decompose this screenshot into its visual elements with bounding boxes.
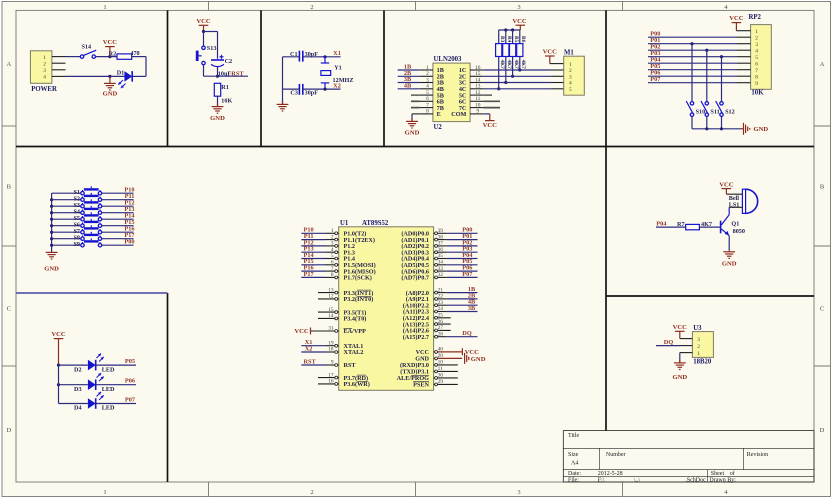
wire net X1 to U1 (301, 339, 325, 346)
svg-text:10K: 10K (221, 98, 232, 105)
svg-text:3: 3 (517, 4, 520, 11)
switch S4 (73, 206, 101, 216)
wire POWER pin4 to LED anode (66, 75, 125, 77)
svg-text:VCC: VCC (512, 18, 527, 25)
pin 31 of U1 (EA/VPP) (311, 326, 339, 333)
wire net P15 from S6 (102, 219, 135, 226)
node R3 to row junction (497, 87, 500, 90)
wire net 4B (U2 input) (398, 82, 420, 89)
svg-text:3: 3 (43, 68, 46, 74)
wire S10 to ground bus (691, 116, 693, 128)
pin 15 of U1 (P3.5) (318, 307, 339, 314)
pin 3 of U3 (VDD) (680, 338, 693, 340)
svg-text:A: A (6, 61, 11, 68)
wire net P04 to RP2 pin 6 (648, 57, 751, 64)
wire net P17 to U1 (301, 271, 325, 278)
pin 3 of U2 (420, 77, 433, 83)
wire net P16 from S7 (102, 226, 135, 233)
svg-text:VCC: VCC (543, 49, 558, 56)
svg-text:1: 1 (569, 62, 572, 68)
op-amp U2 ULN2003 body (433, 56, 470, 131)
switch S7 (73, 225, 101, 235)
svg-text:GND: GND (722, 260, 737, 267)
LED D3 (74, 373, 115, 393)
pin 36 of U1 (P0.3) (434, 247, 447, 254)
pin 1 of POWER (52, 56, 66, 58)
pin 28 of U1 (P2.7) (434, 331, 447, 338)
svg-text:U1: U1 (340, 220, 349, 227)
svg-text:8050: 8050 (733, 228, 745, 235)
wire net P07 to RP2 pin 9 (648, 76, 751, 83)
wire stub U2 pin 10 (483, 107, 500, 109)
svg-text:S12: S12 (725, 109, 735, 116)
node X2 junction (323, 88, 326, 91)
pin 29 of U1 (PSEN) stub (434, 379, 458, 386)
wire C1 left (283, 56, 300, 58)
svg-text:40: 40 (438, 347, 444, 353)
wire VCC stem to LED rows (58, 365, 60, 403)
pin top of LS1 (726, 193, 742, 195)
svg-text:Y1: Y1 (334, 65, 342, 72)
svg-text:R3: R3 (499, 36, 505, 43)
svg-text:P1.7(SCK): P1.7(SCK) (344, 275, 372, 282)
svg-text:8: 8 (331, 272, 334, 278)
wire left vertical (crystal block) (282, 57, 284, 89)
svg-text:D4: D4 (74, 405, 82, 412)
pin 16 of U2 (470, 65, 483, 71)
pin bottom of LS1 (729, 206, 742, 208)
svg-text:C3: C3 (290, 90, 298, 97)
svg-text:\..\: \..\ (634, 477, 641, 483)
svg-text:R2: R2 (109, 51, 117, 58)
wire bus to S9 (52, 244, 81, 246)
svg-text:Revision: Revision (747, 452, 768, 458)
svg-text:4: 4 (755, 48, 758, 54)
wire net P11 from S2 (102, 193, 135, 200)
svg-text:C: C (7, 306, 11, 313)
svg-text:26: 26 (438, 319, 444, 325)
svg-text:9: 9 (476, 109, 479, 115)
svg-text:VCC: VCC (294, 328, 309, 335)
pin 12 of U1 (P3.2) (318, 294, 339, 301)
wire stub U2 pin 11 (483, 100, 500, 102)
svg-text:4B: 4B (404, 82, 412, 89)
svg-text:35: 35 (438, 253, 444, 259)
svg-text:29: 29 (438, 379, 444, 385)
wire bus to S6 (52, 225, 81, 227)
svg-text:(AD7)P0.7: (AD7)P0.7 (401, 275, 429, 282)
pin 12 of U2 (470, 90, 483, 96)
pin 4 of U1 (P1.3) (326, 247, 339, 254)
svg-text:2: 2 (310, 489, 313, 496)
wire net 3B from U1 (447, 305, 478, 312)
pin 22 of U1 (P2.1) (434, 294, 447, 301)
ground (keypad block) (44, 252, 59, 272)
svg-text:P05: P05 (125, 358, 135, 365)
svg-text:2: 2 (426, 71, 429, 77)
wire net P06 from U1 (447, 265, 478, 272)
svg-text:4: 4 (426, 84, 429, 90)
wire net 2B (U2 input) (398, 70, 420, 77)
wire net RST (204, 70, 249, 77)
switch S8 (73, 232, 101, 242)
wire net P01 from U1 (447, 233, 478, 240)
capacitor C2 (211, 55, 232, 78)
svg-text:16: 16 (475, 65, 481, 71)
wire net X2 (303, 82, 341, 89)
wire C2 to RST node (217, 67, 219, 77)
pin 8 of U2 (420, 109, 433, 115)
node RST junction (216, 75, 219, 78)
svg-text:B: B (7, 184, 12, 191)
wire net P12 to U1 (301, 239, 325, 246)
wire P03 to S12 (721, 57, 723, 102)
wire net P04 from U1 (447, 252, 478, 259)
svg-text:D2: D2 (74, 366, 82, 373)
pin 26 of U1 (P2.5) stub (434, 319, 451, 326)
power port VCC (U1 pin40) (462, 348, 479, 356)
svg-text:6: 6 (331, 260, 334, 266)
svg-text:3: 3 (517, 489, 520, 496)
pin 9 of U2 (470, 109, 483, 115)
pin 30 of U1 (ALE) stub (434, 373, 458, 380)
power port VCC (RP2) (729, 15, 744, 31)
wire S13 to RST node (203, 65, 205, 76)
svg-text:22: 22 (438, 294, 444, 300)
wire net P05 from U1 (447, 258, 478, 265)
svg-text:21: 21 (438, 287, 444, 293)
node R6 to row junction (518, 68, 521, 71)
svg-text:S11: S11 (710, 109, 719, 116)
switch S6 (73, 219, 101, 229)
ground (U2 block) (405, 118, 420, 136)
wire net P04 to R7 (656, 220, 686, 227)
wire bus to S1 (52, 192, 81, 194)
wire R2 to LED cathode (132, 57, 146, 77)
wire bus to S4 (52, 212, 81, 214)
svg-text:P06: P06 (125, 378, 135, 385)
node R4 to row junction (504, 81, 507, 84)
wire net P07 from D4 (96, 396, 136, 403)
svg-text:3B: 3B (468, 305, 476, 312)
ground (reset block) (210, 104, 225, 122)
svg-text:31: 31 (328, 326, 334, 332)
svg-text:1: 1 (697, 351, 700, 357)
svg-text:C2: C2 (225, 58, 233, 65)
wire ground bus (key block) (692, 128, 741, 130)
pin 1 of U3 (GND) (680, 352, 693, 354)
pin 21 of U1 (P2.0) (434, 287, 447, 294)
svg-text:15: 15 (475, 71, 481, 77)
svg-text:LED: LED (102, 366, 115, 373)
wire net X2 to U1 (301, 345, 325, 352)
node GND junction A1 (108, 75, 111, 78)
pin 5 of U2 (420, 90, 433, 96)
pin 34 of U1 (P0.5) (434, 260, 447, 267)
wire net P13 from S4 (102, 206, 135, 213)
svg-text:R4: R4 (506, 36, 512, 43)
svg-text:2: 2 (697, 344, 700, 350)
switch S12 (716, 101, 735, 116)
wire net P02 from U1 (447, 239, 478, 246)
pin 1 of U2 (420, 65, 433, 71)
svg-text:POWER: POWER (31, 86, 57, 93)
svg-text:10K: 10K (751, 90, 764, 97)
svg-text:24: 24 (438, 306, 444, 312)
wire net P13 to U1 (301, 246, 325, 253)
resistor R7 (677, 221, 712, 230)
wire net P03 to RP2 pin 5 (648, 50, 751, 57)
node keypad bus junction 4 (50, 218, 53, 221)
resistor R2 (109, 50, 140, 59)
pin 32 of U1 (P0.7) (434, 272, 447, 279)
pin 4 of U2 (420, 84, 433, 90)
partition line vertical x167 top (167, 10, 169, 146)
svg-text:A4: A4 (571, 461, 578, 467)
svg-text:23: 23 (438, 300, 444, 306)
power port VCC (U2 COM) (483, 114, 498, 129)
switch S13 (196, 45, 217, 65)
svg-text:B: B (820, 184, 825, 191)
ground (key block A5) (741, 123, 768, 135)
wire stub U2 pin 12 (483, 94, 492, 96)
svg-text:D3: D3 (74, 386, 82, 393)
svg-text:GND: GND (405, 130, 420, 137)
svg-text:4K7: 4K7 (506, 60, 512, 70)
svg-text:R1: R1 (221, 84, 229, 91)
svg-text:2: 2 (569, 68, 572, 74)
svg-text:6: 6 (755, 61, 758, 67)
partition line horizontal y296 right (606, 295, 814, 297)
svg-text:7: 7 (426, 102, 429, 108)
node P02 junction (705, 49, 708, 52)
svg-text:2: 2 (310, 4, 313, 11)
wire stub U2 pin 6 (411, 100, 420, 102)
wire net P00 from S9 (102, 239, 135, 246)
pin 2 of U2 (420, 71, 433, 77)
wire net DQ to U3 (656, 339, 680, 346)
svg-text:File:: File: (568, 477, 579, 483)
svg-text:P04: P04 (656, 220, 667, 227)
svg-text:VCC: VCC (719, 182, 734, 189)
pin 6 of U2 (420, 96, 433, 102)
resistor R5 4K7 pull-up (510, 30, 519, 76)
svg-text:GND: GND (44, 265, 59, 272)
svg-text:1: 1 (331, 228, 334, 234)
pin 3 of U1 (P1.2) (326, 241, 339, 248)
ground (power block) (103, 76, 118, 97)
power port VCC (reset block) (196, 18, 211, 32)
svg-text:P3.2(INT0): P3.2(INT0) (344, 296, 374, 303)
pin 19 of U1 (XTAL1) (326, 340, 339, 347)
power port VCC (pull-ups) (512, 18, 527, 30)
svg-text:VCC: VCC (673, 324, 688, 331)
switch S14 (80, 44, 96, 59)
svg-text:X2: X2 (305, 345, 313, 352)
node LED row2 junction (57, 383, 60, 386)
svg-text:LED: LED (102, 386, 115, 393)
svg-text:17: 17 (328, 372, 334, 378)
wire net P12 from S3 (102, 200, 135, 207)
svg-text:3: 3 (755, 42, 758, 48)
svg-text:1: 1 (103, 489, 106, 496)
resistor R4 4K7 pull-up (503, 30, 512, 83)
svg-text:DQ: DQ (664, 339, 674, 346)
wire bus to S7 (52, 231, 81, 233)
node keypad bus junction 5 (50, 224, 53, 227)
svg-text:A: A (820, 61, 825, 68)
wire VCC to C2 top (204, 32, 218, 59)
svg-text:GND: GND (103, 90, 118, 97)
pin 10 of U1 (RXD) stub (434, 360, 458, 367)
svg-text:ULN2003: ULN2003 (434, 56, 463, 63)
svg-text:AT89S52: AT89S52 (362, 220, 389, 227)
svg-text:GND: GND (672, 374, 687, 381)
wire POWER pin1 to S14 (66, 56, 81, 58)
pin 7 of U2 (420, 102, 433, 108)
svg-text:4K7: 4K7 (520, 60, 526, 70)
node P01 junction (690, 42, 693, 45)
pin 1 of U1 (P1.0) (326, 228, 339, 235)
svg-text:30pF: 30pF (305, 90, 319, 97)
svg-text:4: 4 (569, 81, 572, 87)
svg-text:DQ: DQ (462, 330, 472, 337)
svg-text:XTAL2: XTAL2 (344, 349, 364, 356)
svg-text:Size: Size (568, 452, 579, 458)
wire VCC to S13 (203, 32, 205, 47)
wire net P06 to RP2 pin 8 (648, 70, 751, 77)
svg-text:P17: P17 (304, 271, 314, 278)
node keypad bus junction 8 (50, 244, 53, 247)
svg-text:X1: X1 (333, 50, 341, 57)
wire VCC to D4 anode (59, 403, 88, 405)
switch S9 (73, 238, 101, 248)
partition line blue y293 left (16, 292, 168, 294)
svg-text:of: of (730, 470, 735, 477)
pin 13 of U2 (470, 84, 483, 90)
svg-text:10: 10 (438, 360, 444, 366)
partition line vertical x261 (260, 10, 262, 146)
crystal Y1 (321, 57, 354, 89)
connector POWER (30, 51, 57, 93)
svg-text:14: 14 (475, 77, 481, 83)
power port VCC (LED block) (51, 331, 66, 365)
svg-text:COM: COM (451, 111, 466, 118)
pin 2 of U1 (P1.1) (326, 234, 339, 241)
svg-text:Drawn By:: Drawn By: (709, 477, 736, 483)
pin 20 of U1 (GND) (434, 353, 463, 360)
wire stub U2 pin 7 (411, 107, 420, 109)
resistor R1 (214, 83, 232, 104)
pin 27 of U1 (P2.6) stub (434, 325, 451, 332)
pin 3 of POWER (52, 69, 66, 71)
wire bus to S3 (52, 205, 81, 207)
power port VCC (buzzer) (719, 182, 734, 195)
svg-text:11: 11 (475, 96, 480, 102)
wire stub U2 pin 5 (411, 94, 420, 96)
switch S2 (73, 193, 101, 203)
switch S10 (686, 101, 705, 116)
pin 14 of U2 (470, 77, 483, 83)
node keypad bus junction 7 (50, 237, 53, 240)
svg-text:D: D (820, 427, 825, 434)
svg-text:VCC: VCC (729, 15, 744, 22)
wire U2 output 1C to M1 pin 2 (483, 69, 564, 71)
svg-text:3: 3 (569, 75, 572, 81)
pin 35 of U1 (P0.4) (434, 253, 447, 260)
op-amp U3 18B20 body (692, 325, 713, 365)
svg-text:7: 7 (331, 266, 334, 272)
bell LS1 (729, 189, 758, 213)
svg-text:15: 15 (328, 307, 334, 313)
svg-text:36: 36 (438, 247, 444, 253)
svg-text:5: 5 (426, 90, 429, 96)
svg-text:.SchDoc: .SchDoc (685, 477, 706, 483)
svg-text:9: 9 (755, 81, 758, 87)
svg-text:18: 18 (328, 347, 334, 353)
wire R1 to ground (217, 96, 219, 106)
svg-text:PSEN: PSEN (413, 381, 429, 388)
wire bus to S5 (52, 218, 81, 220)
svg-text:14: 14 (328, 313, 334, 319)
svg-text:D: D (6, 427, 11, 434)
node keypad bus junction 6 (50, 231, 53, 234)
wire VCC to D2 anode (59, 364, 88, 366)
svg-text:5: 5 (569, 87, 572, 93)
pin 33 of U1 (P0.6) (434, 266, 447, 273)
wire net P05 to RP2 pin 7 (648, 63, 751, 70)
svg-text:2: 2 (755, 35, 758, 41)
svg-text:27: 27 (438, 325, 444, 331)
wire U2 output 4C to M1 pin 5 (483, 88, 564, 90)
ground (buzzer block) (722, 250, 737, 267)
wire net 1B from U1 (447, 286, 478, 293)
capacitor C3 (290, 84, 318, 97)
svg-text:13: 13 (475, 84, 481, 90)
wire net P10 to U1 (301, 227, 325, 234)
svg-text:P07: P07 (125, 396, 135, 403)
wire R7 to Q1 base (699, 226, 720, 228)
wire net 3B (U2 input) (398, 76, 420, 83)
svg-text:39: 39 (438, 228, 444, 234)
svg-text:3: 3 (697, 337, 700, 343)
svg-text:RST: RST (344, 362, 357, 369)
pin 18 of U1 (XTAL2) (326, 347, 339, 354)
svg-text:16: 16 (328, 379, 334, 385)
svg-text:(A15)P2.7: (A15)P2.7 (403, 334, 429, 341)
svg-text:VCC: VCC (51, 331, 66, 338)
svg-text:12: 12 (475, 90, 481, 96)
svg-text:13: 13 (328, 287, 334, 293)
power port VCC (18B20) (673, 324, 688, 339)
pin 25 of U1 (P2.4) stub (434, 313, 451, 320)
svg-text:10: 10 (475, 102, 481, 108)
svg-text:5: 5 (331, 253, 334, 259)
svg-text:4: 4 (43, 75, 46, 81)
node keypad bus junction 2 (50, 205, 53, 208)
pin 7 of U1 (P1.6) (326, 266, 339, 273)
pin 2 of POWER (52, 62, 66, 64)
wire net 4B from U1 (447, 299, 478, 306)
svg-text:12: 12 (328, 294, 334, 300)
wire net P15 to U1 (301, 258, 325, 265)
node X1 junction (323, 55, 326, 58)
pin 8 of U1 (P1.7) (326, 272, 339, 279)
svg-text:LED: LED (102, 405, 115, 412)
node reset top junction (202, 30, 205, 33)
pin 9 of U1 (RST) (326, 360, 339, 367)
op-amp U1 AT89S52 body (339, 220, 434, 390)
